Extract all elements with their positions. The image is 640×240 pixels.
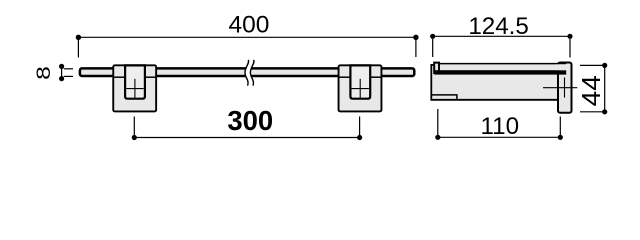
side view rail fill over plate	[556, 64, 566, 70]
left bracket joint line left	[113, 76, 125, 78]
dimension 8 connector	[61, 66, 63, 78]
dimension 300 right dot	[357, 135, 362, 140]
svg-text:300: 300	[227, 105, 273, 136]
dimension 400 line	[78, 36, 416, 38]
right bracket joint line left	[338, 76, 350, 78]
svg-text:44: 44	[577, 75, 606, 106]
left bracket post	[125, 65, 145, 98]
dimension 124.5 right dot	[567, 34, 572, 39]
svg-text:400: 400	[229, 11, 270, 38]
svg-text:110: 110	[481, 113, 520, 140]
dimension 300 right extension line	[359, 117, 361, 138]
left bracket joint line right	[145, 76, 156, 78]
right bracket joint line right	[370, 76, 381, 78]
right bracket post	[350, 65, 370, 98]
dimension 44 bottom extension line	[580, 111, 605, 113]
break gap white-out	[245, 60, 254, 86]
dimension 124.5 right extension line	[569, 39, 571, 58]
left bracket base	[113, 65, 156, 111]
dimension 110 left extension line	[437, 109, 439, 135]
dimension 8 top tick	[64, 68, 73, 70]
dimension 400 right dot	[413, 35, 418, 40]
dimension 8 top dot	[59, 64, 64, 69]
side view wall plate	[558, 63, 572, 113]
svg-text:124.5: 124.5	[468, 13, 529, 40]
dimension 44 top extension line	[580, 64, 605, 66]
dimension 8 bottom tick	[64, 75, 73, 77]
side view hook inner line	[432, 95, 457, 99]
side view rail end cap	[434, 63, 439, 73]
break line left	[245, 60, 249, 86]
dimension 8 bottom dot	[59, 76, 64, 81]
side view arm outline (left edge, hook top, bottom edge)	[431, 65, 557, 100]
svg-text:8: 8	[33, 66, 55, 80]
dimension 300 left extension line	[133, 117, 135, 138]
right bracket base	[339, 65, 382, 111]
side view arm body fill	[431, 64, 557, 101]
dimension 110 right dot	[558, 135, 563, 140]
dimension 44 bottom dot	[602, 109, 607, 114]
dimension 300 line	[134, 137, 359, 139]
dimension 110 line	[438, 136, 561, 138]
left bracket crosshair	[126, 79, 143, 99]
dimension 44 top dot	[602, 63, 607, 68]
side view rail top line	[440, 63, 566, 65]
dimension 124.5 line	[433, 35, 570, 37]
dimension 400 right extension line	[415, 39, 417, 57]
dimension 110 right extension line	[559, 117, 561, 136]
dimension 124.5 left dot	[430, 34, 435, 39]
towel bar rail (front view)	[80, 68, 414, 76]
side view plate crosshair	[543, 78, 577, 98]
dimension 110 left dot	[435, 135, 440, 140]
break line right	[250, 60, 254, 86]
side view rail thick lower line	[434, 70, 566, 74]
right bracket crosshair	[352, 79, 369, 99]
dimension 124.5 left extension line	[432, 39, 434, 57]
dimension 400 left extension line	[77, 39, 79, 58]
dimension 300 left dot	[132, 135, 137, 140]
dimension 400 left dot	[76, 35, 81, 40]
dimension 44 line	[604, 65, 606, 111]
